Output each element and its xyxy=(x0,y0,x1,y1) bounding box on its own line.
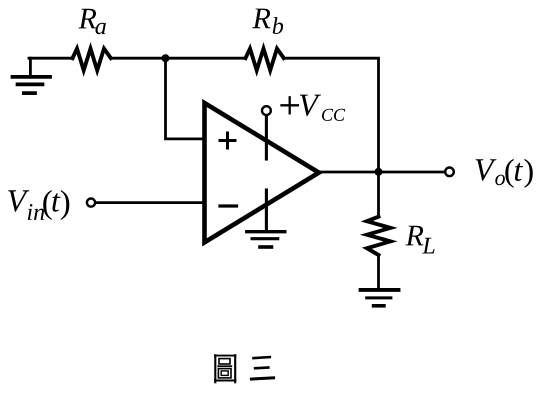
node B (output junction) xyxy=(375,168,383,176)
ground (below RL) xyxy=(361,290,399,306)
label Rb xyxy=(252,9,283,34)
label Vin(t) xyxy=(8,190,69,220)
node A (junction of Ra, Rb, + input) xyxy=(162,54,170,62)
wire Ra to Rb xyxy=(111,57,246,60)
wire node A down and into + input xyxy=(166,58,205,139)
terminal +VCC xyxy=(262,106,271,115)
op-amp U1 triangle xyxy=(205,103,319,242)
label +VCC xyxy=(282,95,346,121)
op-amp - input symbol xyxy=(220,204,237,207)
wire RL to ground xyxy=(377,255,380,288)
wire output node down to RL xyxy=(377,172,380,217)
caption glyph 圖 (Figure) xyxy=(214,354,236,383)
wire op-amp ground lead xyxy=(265,190,268,230)
caption glyph 三 (three) xyxy=(250,357,275,379)
ground (left, at Ra) xyxy=(13,58,51,93)
wire Vin terminal to - input xyxy=(97,201,205,204)
wire op-amp output to terminal xyxy=(319,171,445,174)
wire ground to Ra xyxy=(29,57,73,60)
wire VCC lead into op-amp xyxy=(265,116,268,159)
resistor Rb xyxy=(246,49,284,71)
label RL xyxy=(405,226,434,254)
terminal Vin xyxy=(87,199,95,207)
wire Rb to feedback corner, down to output node xyxy=(284,58,379,172)
terminal Vo xyxy=(445,168,454,177)
ground (op-amp) xyxy=(247,232,285,247)
op-amp + input symbol xyxy=(220,133,235,148)
label Vo(t) xyxy=(476,159,533,188)
resistor Ra xyxy=(73,49,111,71)
label Ra xyxy=(78,9,106,35)
resistor RL xyxy=(367,217,391,255)
